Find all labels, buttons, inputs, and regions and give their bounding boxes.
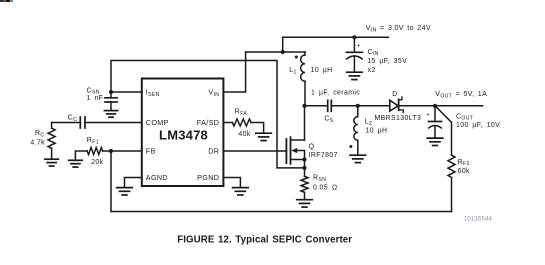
svg-text:RF1: RF1	[87, 137, 99, 145]
wire ISEN sense run	[111, 61, 305, 168]
wire VIN pin feed	[223, 52, 245, 92]
capacitor CC	[80, 117, 85, 128]
ground AGND	[117, 188, 133, 195]
wire VIN node horizontal	[246, 51, 305, 53]
svg-text:VIN = 3.0V to 24V: VIN = 3.0V to 24V	[366, 23, 431, 34]
ground PGND	[233, 188, 249, 195]
node ISEN tap junction	[302, 166, 306, 170]
ground CIN	[347, 72, 363, 79]
wire RF2 bottom lead	[451, 177, 453, 211]
svg-text:AGND: AGND	[146, 173, 168, 182]
resistor RF2	[448, 155, 455, 177]
svg-text:4.7k: 4.7k	[30, 139, 45, 146]
wire diode cathode to VOUT	[399, 105, 483, 107]
svg-text:FB: FB	[146, 147, 156, 156]
svg-text:+: +	[426, 113, 430, 119]
ground L2	[350, 155, 366, 162]
node CS left junction	[302, 104, 306, 108]
svg-text:1 nF: 1 nF	[87, 95, 104, 102]
wire RF1 left lead	[75, 151, 87, 160]
svg-text:CC: CC	[68, 115, 77, 123]
resistor RFA	[232, 119, 251, 126]
wire CS rail left	[305, 105, 328, 107]
svg-text:100 µF, 10V: 100 µF, 10V	[456, 122, 500, 129]
svg-text:RF2: RF2	[458, 159, 470, 167]
wire source down	[304, 160, 306, 177]
svg-text:60k: 60k	[458, 168, 470, 175]
ground CSN	[104, 111, 117, 118]
inductor L2	[354, 106, 358, 155]
svg-text:DR: DR	[208, 147, 219, 156]
diode D MBRS130LT3	[390, 97, 403, 112]
svg-text:VOUT = 5V, 1A: VOUT = 5V, 1A	[435, 89, 487, 100]
capacitor CSN	[105, 92, 117, 110]
svg-text:PGND: PGND	[197, 173, 219, 182]
node ISEN/CSN junction	[109, 90, 113, 94]
wire RFA to ground	[251, 123, 264, 133]
transistor Q IRF7807	[286, 137, 304, 164]
svg-text:RFA: RFA	[235, 108, 248, 116]
wire FB pin stub	[103, 150, 142, 152]
capacitor CS	[328, 100, 332, 111]
node Q source junction	[302, 157, 306, 161]
wire ISEN pin stub	[111, 91, 142, 93]
transistor Q body arrow	[291, 148, 297, 153]
svg-text:VIN: VIN	[208, 88, 219, 99]
svg-text:D: D	[392, 91, 397, 98]
svg-text:FA/SD: FA/SD	[197, 118, 220, 127]
svg-text:20k: 20k	[91, 159, 103, 166]
wire VIN rail drop to L1 node	[282, 37, 284, 52]
svg-text:0.05 Ω: 0.05 Ω	[313, 184, 337, 191]
svg-text:MBRS130LT3: MBRS130LT3	[375, 115, 422, 122]
ground COUT	[427, 138, 443, 145]
wire bottom feedback rail	[111, 211, 452, 213]
svg-text:FIGURE 12. Typical SEPIC Conve: FIGURE 12. Typical SEPIC Converter	[177, 234, 352, 245]
node FB junction	[109, 149, 113, 153]
svg-text:40k: 40k	[238, 131, 250, 138]
node L1 top junction	[281, 50, 285, 54]
IC U1 LM3478 controller	[142, 79, 224, 187]
svg-text:x2: x2	[368, 67, 376, 74]
svg-text:1 µF, ceramic: 1 µF, ceramic	[311, 90, 360, 97]
svg-text:COMP: COMP	[146, 118, 169, 127]
node L2 phase dot	[349, 145, 352, 148]
ground RFA	[256, 133, 272, 140]
resistor RC	[48, 123, 55, 159]
svg-text:IRF7807: IRF7807	[309, 152, 338, 159]
node L1 phase dot	[295, 56, 298, 59]
wire drain to CS node	[304, 106, 306, 140]
ground RSN	[297, 200, 313, 207]
svg-text:10135544: 10135544	[464, 216, 493, 222]
wire COMP right segment	[85, 122, 142, 124]
svg-text:RC: RC	[35, 130, 44, 138]
decorative clipped header fragment	[0, 0, 4, 2]
node VOUT junction	[433, 104, 437, 108]
wire AGND pin	[125, 178, 142, 188]
svg-text:ISEN: ISEN	[146, 88, 160, 99]
inductor L1	[301, 52, 305, 106]
svg-text:COUT: COUT	[456, 113, 473, 121]
capacitor CIN	[346, 37, 362, 72]
wire FA/SD pin stub	[223, 122, 232, 124]
svg-text:15 µF, 35V: 15 µF, 35V	[367, 58, 407, 65]
wire VOUT diagonal to RF2	[435, 106, 452, 155]
node CIN junction	[352, 35, 356, 39]
svg-text:CIN: CIN	[368, 49, 379, 57]
wire COMP left segment	[52, 122, 81, 124]
svg-text:Q: Q	[309, 144, 315, 151]
svg-text:LM3478: LM3478	[159, 127, 208, 142]
svg-text:L1: L1	[289, 67, 296, 75]
wire CS rail right	[331, 105, 390, 107]
wire PGND pin	[223, 178, 240, 188]
svg-text:+: +	[357, 44, 361, 50]
svg-text:CS: CS	[324, 116, 333, 124]
capacitor COUT	[429, 106, 442, 138]
svg-text:RSN: RSN	[313, 175, 326, 183]
svg-text:10 µH: 10 µH	[311, 67, 333, 74]
resistor RSN	[301, 176, 308, 199]
resistor RF1	[87, 148, 102, 155]
wire VIN top rail	[283, 36, 389, 38]
ground RF1	[69, 160, 83, 167]
svg-text:L2: L2	[365, 119, 372, 127]
wire DR gate drive	[223, 150, 286, 152]
wire FB feedback drop	[110, 151, 112, 212]
ground RC	[45, 159, 59, 166]
node L2 top junction	[356, 104, 360, 108]
svg-text:10 µH: 10 µH	[366, 128, 388, 135]
